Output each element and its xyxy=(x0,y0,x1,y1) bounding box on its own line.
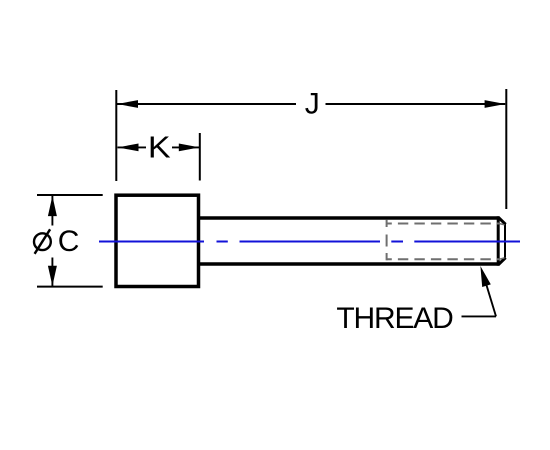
dimension line K left arrow xyxy=(118,144,147,152)
chamfer bottom diagonal xyxy=(499,258,506,265)
svg-text:K: K xyxy=(148,130,171,164)
dimension line C bottom arrow xyxy=(48,258,57,287)
extension line right of K xyxy=(199,133,201,181)
label C xyxy=(58,225,80,258)
bolt tip end face xyxy=(504,224,506,258)
svg-text:C: C xyxy=(58,225,80,258)
extension line bottom of C xyxy=(37,286,103,288)
extension line right of J xyxy=(505,89,507,209)
thread hidden line top xyxy=(387,223,499,225)
label THREAD xyxy=(336,302,453,335)
label K xyxy=(148,130,171,164)
svg-text:THREAD: THREAD xyxy=(336,302,453,335)
extension line left (J and K) xyxy=(115,90,117,181)
dimension line C top arrow xyxy=(48,196,57,226)
thread chamfer hidden diagonal top xyxy=(499,224,505,225)
bolt shank top edge xyxy=(199,216,500,219)
bolt head xyxy=(116,195,199,286)
dimension line K right arrow xyxy=(172,144,200,152)
svg-text:J: J xyxy=(305,88,320,121)
centerline (blue) xyxy=(99,241,520,243)
diameter symbol xyxy=(34,229,51,254)
bolt shank bottom edge xyxy=(199,262,500,265)
label J xyxy=(305,88,320,121)
thread start hidden line vertical xyxy=(386,220,388,261)
dimension line J right part xyxy=(326,100,506,108)
chamfer top diagonal xyxy=(499,218,506,225)
thread chamfer hidden diagonal bottom xyxy=(499,258,505,260)
extension line top of C xyxy=(37,194,103,196)
thread hidden line bottom xyxy=(387,258,499,260)
leader line for THREAD xyxy=(462,266,497,316)
chamfer start vertical line xyxy=(497,216,500,265)
dimension line J left part xyxy=(117,100,296,108)
